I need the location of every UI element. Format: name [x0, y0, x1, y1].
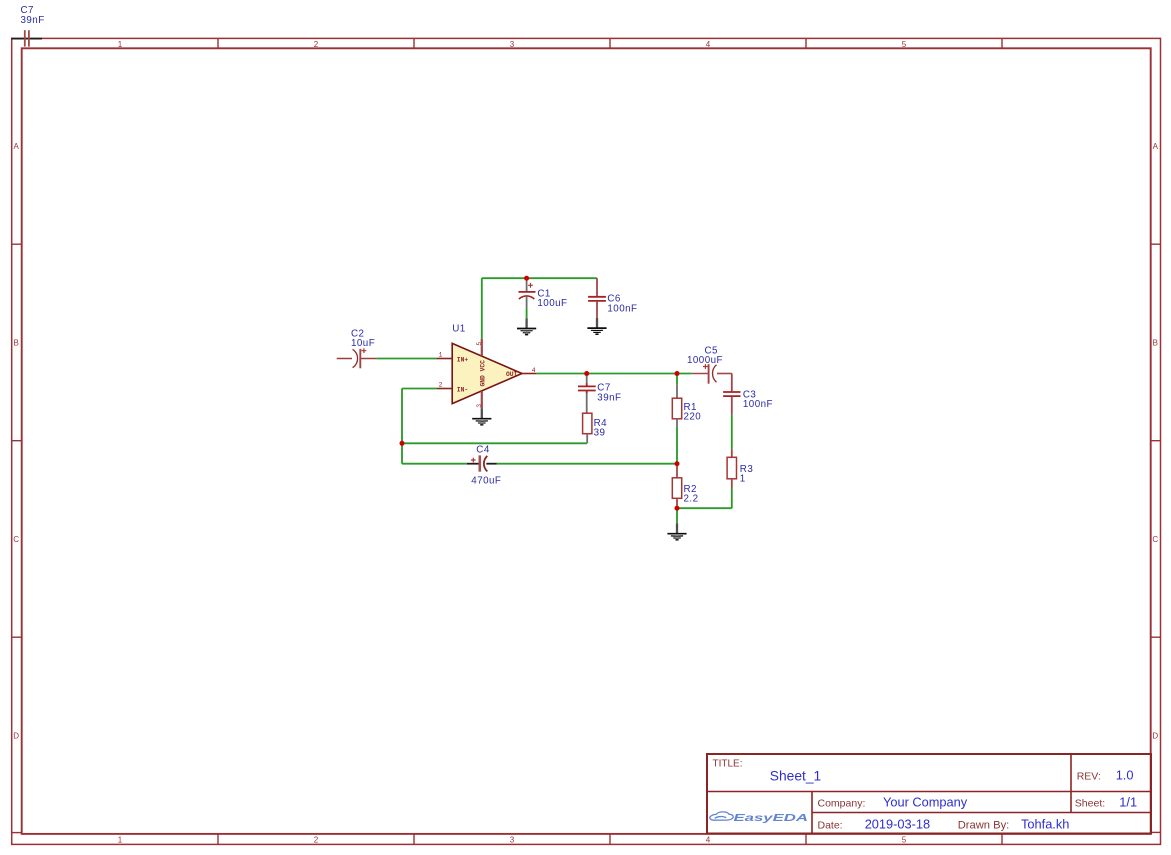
svg-text:TITLE:: TITLE:: [713, 758, 743, 769]
svg-text:3: 3: [510, 836, 515, 845]
svg-text:5: 5: [476, 342, 483, 346]
svg-text:Drawn By:: Drawn By:: [958, 819, 1010, 831]
wire pin2 stub: [402, 388, 437, 390]
frame corner notch bottom-left: [12, 832, 22, 834]
svg-text:U1: U1: [452, 323, 465, 334]
svg-text:B: B: [1153, 339, 1158, 348]
svg-text:1000uF: 1000uF: [687, 355, 723, 366]
title block divider row1: [707, 791, 1151, 793]
capacitor C3: [723, 374, 773, 415]
junction C7 output: [584, 371, 589, 376]
svg-text:5: 5: [902, 836, 907, 845]
pin 3: [481, 391, 483, 408]
svg-text:1.0: 1.0: [1116, 768, 1134, 783]
capacitor C2: [337, 328, 377, 368]
svg-text:C: C: [1152, 535, 1158, 544]
svg-text:1: 1: [118, 836, 123, 845]
wire vcc rail: [482, 277, 597, 279]
frame column ticks top: [218, 38, 1002, 48]
title block divider logo cell: [811, 792, 813, 834]
capacitor C6: [588, 278, 637, 318]
title block divider rev cell: [1070, 754, 1072, 813]
svg-text:IN-: IN-: [457, 386, 468, 393]
svg-text:A: A: [14, 142, 20, 151]
EasyEDA logo cloud glyph: [710, 812, 733, 820]
junction C1 vcc rail: [524, 276, 529, 281]
svg-text:Tohfa.kh: Tohfa.kh: [1021, 816, 1069, 831]
svg-text:4: 4: [706, 836, 711, 845]
svg-text:Your Company: Your Company: [883, 794, 968, 809]
svg-text:1: 1: [740, 474, 746, 485]
svg-text:220: 220: [684, 412, 702, 423]
wire R2 to ground: [676, 508, 678, 523]
svg-text:3: 3: [476, 404, 483, 408]
capacitor C7: [578, 374, 621, 414]
junction R1 R2 mid: [675, 461, 680, 466]
frame column ticks bottom: [218, 834, 1002, 845]
resistor R4: [583, 413, 608, 443]
capacitor C4: [467, 444, 502, 486]
svg-text:2: 2: [439, 382, 443, 389]
svg-text:100nF: 100nF: [607, 303, 637, 314]
wire bottom row: [677, 507, 732, 509]
svg-text:2.2: 2.2: [684, 494, 699, 505]
svg-text:Company:: Company:: [818, 797, 866, 809]
svg-text:2019-03-18: 2019-03-18: [865, 816, 930, 831]
frame row ticks left: [12, 244, 22, 637]
svg-text:A: A: [1153, 142, 1159, 151]
pin 2: [437, 388, 452, 390]
ground for R2: [667, 523, 686, 540]
svg-text:39nF: 39nF: [21, 15, 45, 26]
wire C3 to R3: [731, 414, 733, 449]
stray capacitor C7 at sheet corner: [11, 5, 44, 46]
svg-text:5: 5: [902, 40, 907, 49]
svg-text:10uF: 10uF: [351, 338, 375, 349]
ground for U1 pin3: [472, 408, 491, 425]
svg-text:1: 1: [118, 40, 123, 49]
resistor R3: [727, 449, 753, 488]
wire output row: [536, 373, 692, 375]
wire C1 to ground: [526, 308, 528, 318]
junction feedback tee: [400, 441, 405, 446]
pin 1: [437, 358, 452, 360]
svg-text:GND VCC: GND VCC: [480, 360, 487, 387]
capacitor C1: [519, 280, 568, 309]
op-amp U1: [437, 323, 536, 408]
svg-text:4: 4: [706, 40, 711, 49]
wire R1 top: [676, 374, 678, 385]
svg-text:C4: C4: [476, 444, 490, 455]
frame row ticks right: [1151, 244, 1161, 637]
ground for C6: [587, 318, 606, 334]
svg-text:B: B: [14, 339, 19, 348]
svg-text:IN+: IN+: [457, 356, 469, 363]
svg-text:100nF: 100nF: [743, 399, 773, 410]
wire R3 bottom: [731, 488, 733, 508]
wire R1 bottom: [676, 427, 678, 463]
svg-text:Sheet_1: Sheet_1: [770, 768, 821, 783]
svg-text:39: 39: [594, 428, 606, 439]
wire C4 row left: [402, 463, 467, 465]
ground for C1: [517, 318, 536, 334]
pin 4: [522, 373, 536, 375]
svg-text:D: D: [1152, 732, 1158, 741]
resistor R2: [672, 464, 698, 509]
svg-text:2: 2: [314, 40, 319, 49]
frame corner notch bottom-right: [1151, 831, 1161, 833]
svg-text:Date:: Date:: [818, 819, 843, 831]
svg-text:39nF: 39nF: [597, 392, 621, 403]
svg-text:EasyEDA: EasyEDA: [734, 813, 809, 824]
svg-text:REV:: REV:: [1077, 771, 1101, 783]
title block divider row2 right part: [812, 812, 1151, 814]
capacitor C5: [687, 345, 732, 383]
pin 5: [481, 339, 483, 356]
svg-text:Sheet:: Sheet:: [1075, 798, 1105, 810]
wire vcc riser: [481, 278, 483, 339]
svg-text:2: 2: [314, 836, 319, 845]
svg-text:OUT: OUT: [506, 371, 518, 378]
svg-text:3: 3: [510, 40, 515, 49]
svg-text:C: C: [13, 535, 19, 544]
svg-text:100uF: 100uF: [537, 298, 567, 309]
wire vertical feedback left: [401, 389, 403, 464]
wire C4 row right: [497, 463, 677, 465]
svg-text:D: D: [13, 732, 19, 741]
svg-text:1/1: 1/1: [1119, 795, 1137, 810]
title block outline: [707, 754, 1151, 834]
svg-text:4: 4: [532, 367, 536, 374]
svg-text:1: 1: [439, 352, 443, 359]
junction R2 bottom: [675, 506, 680, 511]
svg-text:470uF: 470uF: [471, 476, 501, 487]
wire input to pin1: [377, 358, 437, 360]
wire feedback row to R4: [402, 442, 587, 444]
junction R1 output: [675, 371, 680, 376]
resistor R1: [672, 385, 701, 428]
